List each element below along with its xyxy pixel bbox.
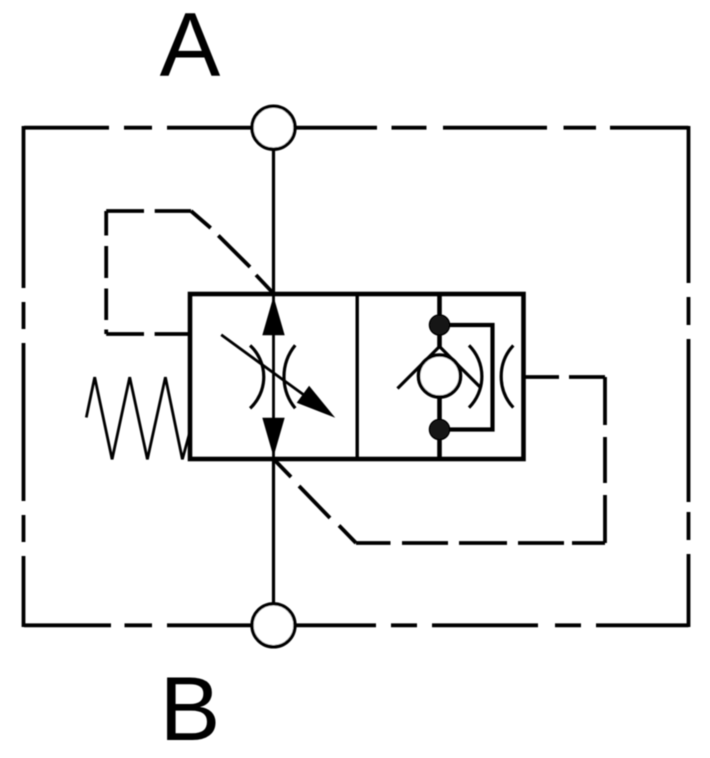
bypass line around check valve [440, 325, 493, 430]
check valve stem lower [437, 397, 442, 459]
flow path vertical line left cell [272, 294, 275, 459]
boundary top dashed wire [24, 126, 689, 130]
pilot dashed right vertical [603, 377, 607, 543]
boundary left dashed wire [22, 126, 26, 627]
junction dot bottom [430, 420, 450, 440]
junction dot top [430, 315, 450, 335]
port B circle [252, 604, 295, 647]
orifice arc right on bypass [501, 345, 513, 407]
down arrowhead [262, 418, 284, 457]
pilot dashed diagonal from valve top node [191, 211, 274, 294]
wire valve to port B [272, 459, 275, 604]
pilot dashed lower horizontal into valve left [106, 332, 190, 336]
boundary bottom dashed wire [24, 623, 689, 627]
valve envelope [190, 294, 524, 459]
spring [86, 377, 190, 459]
wire port A to valve [272, 149, 275, 294]
adjustment arrowhead [297, 386, 336, 418]
check valve stem upper [437, 294, 442, 347]
throttle arc right [284, 345, 295, 408]
svg-text:B: B [160, 659, 221, 758]
pilot dashed diagonal from valve bottom node [274, 460, 356, 544]
svg-text:A: A [160, 0, 221, 96]
up arrowhead [262, 296, 284, 335]
check valve ball [419, 355, 461, 397]
check valve seat right arm [440, 347, 482, 389]
pilot dashed left vertical [104, 211, 108, 334]
throttle arc left [250, 345, 264, 408]
adjustment arrow shaft [221, 335, 305, 396]
pilot dashed top horizontal [106, 209, 191, 213]
pilot dashed bottom horizontal [356, 541, 605, 545]
pilot dashed into valve right edge [524, 375, 605, 379]
check valve seat left arm [398, 347, 440, 389]
orifice arc left on bypass [469, 345, 482, 407]
boundary right dashed wire [687, 126, 691, 627]
port A circle [252, 106, 295, 149]
envelope divider [356, 294, 359, 459]
